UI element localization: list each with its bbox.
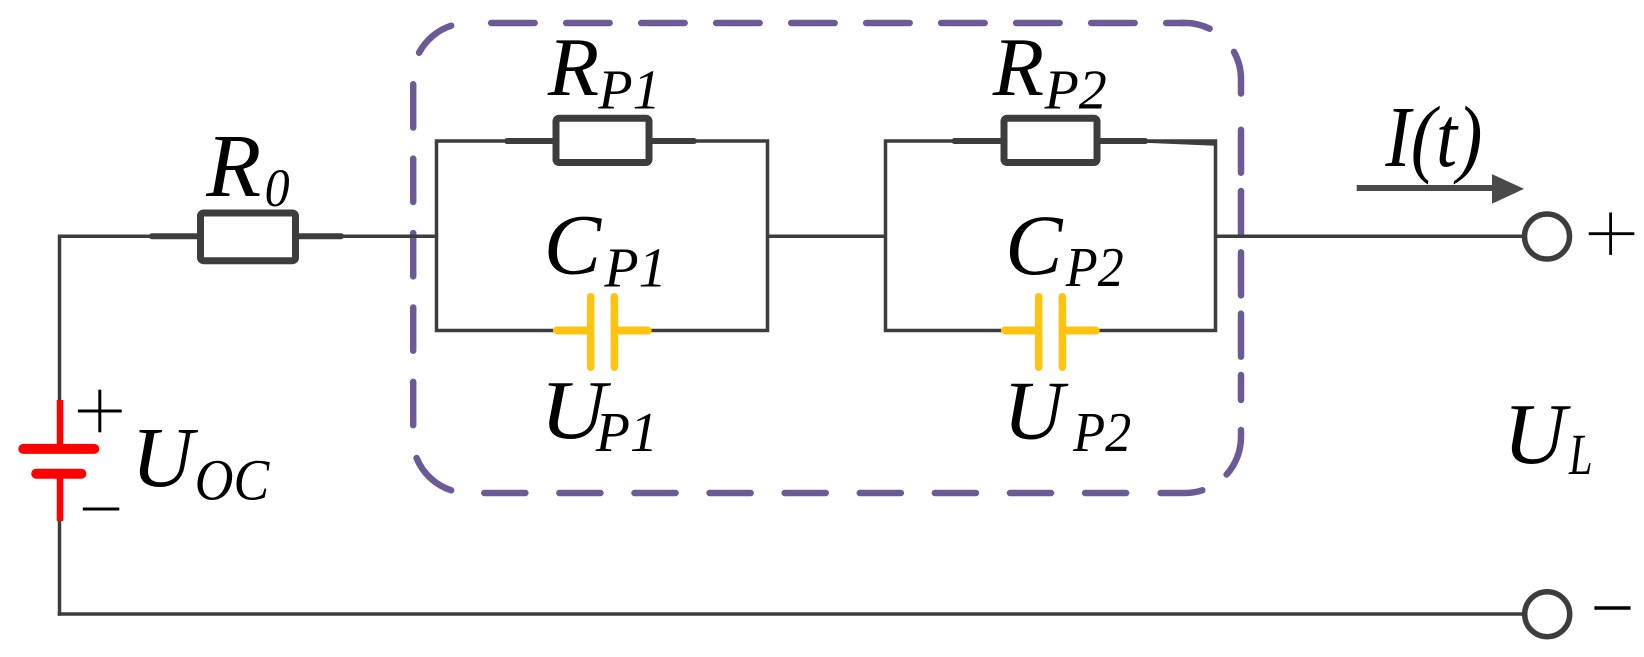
svg-text:I(t): I(t) — [1385, 88, 1483, 185]
svg-text:U: U — [1003, 365, 1069, 458]
svg-text:0: 0 — [265, 158, 290, 218]
svg-text:R: R — [205, 117, 261, 216]
svg-text:P2: P2 — [1065, 237, 1124, 299]
svg-text:U: U — [1503, 385, 1571, 482]
svg-text:OC: OC — [195, 448, 271, 513]
svg-text:U: U — [131, 409, 198, 505]
svg-text:R: R — [992, 21, 1044, 114]
svg-text:P2: P2 — [1044, 60, 1107, 122]
svg-text:R: R — [547, 21, 599, 114]
svg-text:C: C — [544, 197, 603, 293]
svg-text:P2: P2 — [1072, 402, 1131, 464]
svg-text:P1: P1 — [603, 238, 666, 300]
svg-text:L: L — [1568, 422, 1592, 487]
svg-text:C: C — [1005, 197, 1064, 293]
svg-text:P1: P1 — [597, 60, 660, 122]
svg-text:P1: P1 — [595, 402, 658, 464]
